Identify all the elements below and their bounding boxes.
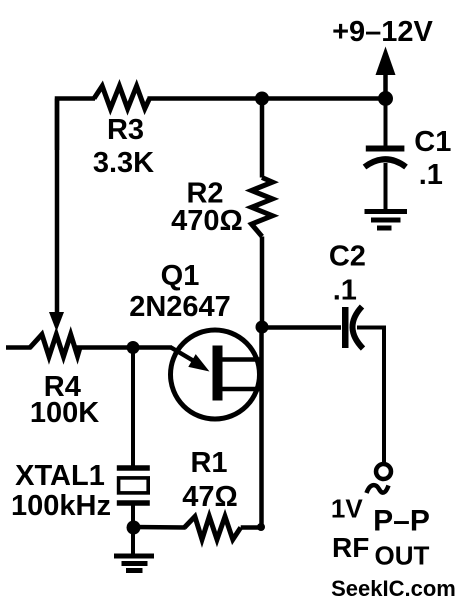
power +9-12V arrow [376,47,396,99]
wire C2 to output [357,328,384,464]
svg-text:.1: .1 [419,159,443,191]
ground (XTAL1) [114,556,154,571]
junction node R4/XTAL1/emitter [127,341,140,354]
potentiometer wiper arrow (R4) [49,312,64,332]
resistor R4 [30,334,80,356]
wire R1 right to corner [241,523,265,531]
svg-text:47Ω: 47Ω [182,481,238,513]
wire R2 top [260,99,265,178]
svg-text:RF: RF [332,532,369,563]
svg-text:R1: R1 [190,447,227,479]
svg-text:P–P: P–P [373,505,430,538]
svg-text:3.3K: 3.3K [93,147,154,179]
junction node +V rail [378,91,393,106]
output terminal circle [376,464,391,479]
wire R2 bottom to B2 node [260,237,265,328]
wire left branch R3 to R4 wiper [55,99,60,315]
wire B2 node to C2 [262,325,341,330]
wire XTAL1 top [131,348,135,468]
junction node XTAL1 bottom [127,521,141,535]
resistor R3 [94,86,150,109]
wire XTAL1 to ground [131,527,135,554]
wire top rail left segment [57,99,95,151]
svg-text:Q1: Q1 [161,260,200,292]
junction node B2/C2 [256,321,269,334]
svg-text:100kHz: 100kHz [11,490,111,522]
resistor R2 [252,178,273,237]
capacitor C1 [365,149,407,210]
svg-text:2N2647: 2N2647 [129,291,231,323]
svg-text:XTAL1: XTAL1 [15,460,105,492]
wire top rail right segment [148,96,386,101]
svg-text:R3: R3 [107,114,144,146]
svg-text:+9–12V: +9–12V [332,16,433,48]
wire B2 node down to R1 [259,327,264,527]
svg-text:470Ω: 470Ω [171,205,243,237]
svg-text:100K: 100K [30,397,99,429]
wire R4 to emitter node [76,345,172,350]
resistor R1 [184,517,240,540]
svg-text:1V: 1V [331,494,363,524]
capacitor C2 [342,307,363,349]
crystal XTAL1 [117,468,150,527]
svg-text:C1: C1 [414,126,451,158]
junction node top of R2 [255,92,269,106]
transistor Q1 [171,330,262,419]
svg-text:.1: .1 [333,275,357,307]
svg-text:SeekIC.com: SeekIC.com [331,576,456,601]
ground (C1) [365,212,408,229]
wire R4 left stub [6,345,32,350]
wire +V rail to C1 [384,99,388,149]
svg-text:OUT: OUT [375,541,430,571]
wire XTAL1 node to R1 [133,525,186,530]
output AC tilde symbol [367,485,389,493]
svg-text:C2: C2 [329,241,366,273]
